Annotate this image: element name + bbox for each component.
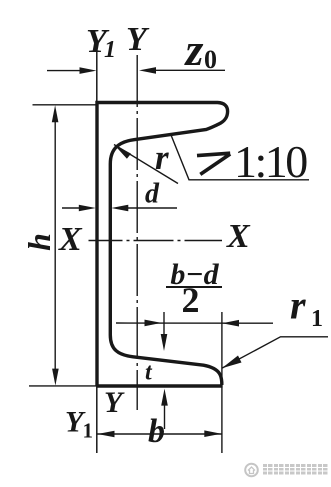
dimension z0 line left segment with arrow	[47, 70, 81, 72]
svg-text:r: r	[290, 283, 306, 328]
svg-text:1: 1	[104, 37, 116, 63]
dimension (b-d)/2 line with outside arrows	[116, 322, 273, 324]
node Y axis (centroid, chain line)	[136, 55, 138, 410]
leader for r with arrow	[114, 145, 178, 184]
svg-text:X: X	[58, 221, 83, 258]
dimension t top arrow (down)	[161, 334, 168, 351]
svg-text:1:10: 1:10	[234, 136, 307, 187]
svg-text:z: z	[184, 24, 204, 75]
leader for 1:10 slope	[171, 134, 310, 180]
dimension d left arrow	[62, 207, 81, 209]
wire bottom extension line for h	[29, 385, 97, 387]
node X axis (chain line)	[89, 240, 223, 242]
wire top extension line for h	[33, 104, 97, 106]
svg-text:1: 1	[83, 419, 94, 443]
svg-text:h: h	[21, 233, 57, 251]
node Y1 axis (web back face extension line)	[96, 52, 98, 453]
dimension b line with arrows	[97, 433, 222, 435]
dimension d right arrow with tail	[127, 207, 177, 209]
fraction bar of (b-d)/2	[166, 286, 222, 288]
svg-text:Y: Y	[104, 386, 125, 419]
svg-text:Y: Y	[126, 21, 150, 58]
svg-text:t: t	[145, 360, 153, 386]
watermark text blocks	[263, 464, 328, 475]
dimension h line with arrows	[54, 120, 56, 371]
svg-text:0: 0	[204, 45, 217, 74]
dimension t bottom arrow (up) with tail	[164, 404, 166, 429]
svg-text:d: d	[145, 179, 160, 210]
wire extension line at flange tip (for b and (b-d)/2)	[221, 312, 223, 453]
svg-text:2: 2	[182, 280, 200, 320]
channel section outline	[97, 103, 228, 387]
watermark logo circle	[245, 464, 258, 477]
svg-text:1: 1	[311, 306, 323, 332]
slope symbol 1:10	[197, 153, 230, 174]
dimension z0 line right segment with arrow	[155, 69, 225, 71]
leader for r1 with arrow	[222, 337, 328, 369]
svg-text:r: r	[155, 138, 169, 177]
svg-text:b: b	[148, 413, 165, 450]
svg-text:X: X	[226, 218, 251, 255]
wire t reference line	[163, 312, 165, 337]
